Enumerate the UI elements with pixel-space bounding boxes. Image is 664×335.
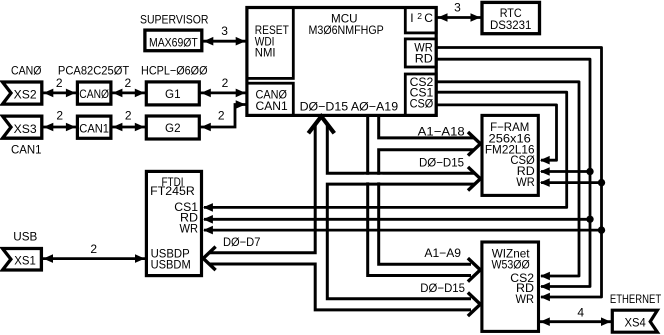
svg-text:MAX69ØT: MAX69ØT [149,35,198,49]
junction dot WR/F-RAM [598,179,605,186]
junction dot WR/FTDI [598,226,605,233]
svg-text:XS1: XS1 [14,253,36,267]
arrowhead into F-RAM CS0 [540,156,550,165]
svg-text:DØ−D15: DØ−D15 [419,155,464,169]
svg-text:C: C [424,11,433,25]
optocoupler G2 [146,116,199,139]
bus arrowhead into WIZnet D0-D15 [469,294,480,315]
bus crossing blank: F-RAM D0-D15 bus passes over address bus [364,175,383,183]
mcu sub-block CAN0 CAN1 [247,83,293,115]
bus data: FTDI D0-D7 top line joining vertical bus 1 left line [210,125,315,253]
wire MCU CS1 to FTDI CS1 [204,92,567,207]
arrowhead into WIZnet RD [540,282,550,291]
arrowhead into FTDI RD [203,215,213,224]
wire XS2 to CAN0 (2) [43,76,76,97]
wire WIZnet to XS4 (4) [539,305,612,326]
svg-text:M3Ø6NMFHGP: M3Ø6NMFHGP [309,23,384,37]
wire XS3 to CAN1 (2) [43,109,76,132]
transceiver CAN0 [77,82,111,104]
svg-text:CSØ: CSØ [410,96,434,110]
wire branch WR to F-RAM WR [541,181,602,184]
svg-text:CAN1: CAN1 [11,143,42,157]
bus arrowhead into F-RAM D0-D15 [469,168,480,189]
svg-text:2: 2 [417,11,422,21]
arrowhead into F-RAM RD [540,167,550,176]
transceiver CAN1 [77,116,111,138]
arrowhead into FTDI WR [203,226,213,235]
svg-text:XS4: XS4 [625,316,646,330]
mcu sub-block CS2 CS1 CS0 [405,74,436,115]
arrowhead into WIZnet WR [540,293,550,302]
ethernet controller WIZnet W5300 [482,242,539,331]
wire XS1 to FTDI USBDP/USBDM (2) [43,242,147,263]
wire I2C to RTC (3) [436,1,481,22]
svg-text:XS2: XS2 [14,88,37,102]
svg-text:3: 3 [221,24,228,38]
svg-text:USBDM: USBDM [151,257,191,271]
mcu sub-block I2C [405,8,436,33]
svg-text:I: I [410,11,413,25]
mcu sub-block WR RD [405,39,436,67]
svg-text:PCA82C25ØT: PCA82C25ØT [58,64,130,78]
bus address: A1-A18 bottom line, vertical bus 2 right line lower part, A1-A9 top line [379,150,474,265]
optocoupler G1 [146,82,199,105]
svg-text:4: 4 [577,305,584,319]
usb interface FTDI FT245R [146,171,201,275]
junction dot RD/F-RAM [586,168,593,175]
svg-text:2: 2 [90,242,97,256]
connector XS2 [3,82,42,104]
svg-text:DØ−D7: DØ−D7 [223,235,261,249]
wire MCU WR to WIZnet WR [436,48,601,298]
svg-text:RD: RD [415,52,433,66]
junction dot RD/FTDI [586,216,593,223]
svg-text:2: 2 [125,109,132,123]
svg-text:NMI: NMI [255,46,276,60]
bus data: FTDI D0-D7 bottom line, vertical bus 1 left line lower part, WIZnet D0-D15 bottom line [210,264,471,310]
wire G1 to MCU CAN0 (2) [199,76,247,97]
mcu sub-block RESET WDI NMI [247,8,293,79]
wire branch WR to FTDI WR [204,229,602,232]
svg-text:FT245R: FT245R [150,184,195,198]
svg-text:CANØ: CANØ [11,64,42,78]
wire MCU CS2 to WIZnet CS2 [436,82,579,276]
wire branch RD to FTDI RD [204,218,590,221]
wire MCU CS0 to F-RAM CS0 [436,105,556,160]
bus data: F-RAM D0-D15 top line joining vertical bus 1 right line [327,125,474,174]
svg-text:2: 2 [218,109,225,123]
svg-text:DØ−D15: DØ−D15 [420,281,465,295]
svg-text:DS3231: DS3231 [490,18,532,32]
svg-text:W53ØØ: W53ØØ [492,257,530,271]
svg-text:SUPERVISOR: SUPERVISOR [140,12,209,26]
wire branch RD to F-RAM RD [541,170,590,173]
wire G2 to MCU CAN1 (2) [199,100,247,131]
svg-text:XS3: XS3 [14,122,37,136]
bus arrowhead into WIZnet A1-A9 [469,259,480,280]
svg-text:2: 2 [56,76,63,90]
svg-text:2: 2 [222,76,229,90]
memory F-RAM FM22L16 [482,115,538,195]
svg-text:A1−A9: A1−A9 [424,246,461,260]
svg-text:CAN1: CAN1 [256,99,289,113]
svg-text:A1−A18: A1−A18 [418,125,465,139]
svg-text:G1: G1 [165,87,181,101]
supervisor MAX690T [145,30,202,51]
connector XS4 [612,310,657,332]
rtc DS3231 [482,2,540,33]
svg-text:2: 2 [124,76,131,90]
wire MAX690T to MCU RESET (3) [202,24,247,45]
bus data: F-RAM D0-D15 bottom line, vertical bus 1 right line lower part, WIZnet D0-D15 top line [327,184,474,299]
svg-text:CAN1: CAN1 [79,121,109,135]
arrowhead into FTDI CS1 [203,203,213,212]
bus big arrowhead into MCU D0-D15 A0-A19 [310,116,333,131]
svg-text:USB: USB [13,230,37,244]
mcu M306NMFHGP [247,8,436,116]
bus arrowhead into F-RAM A1-A18 [469,133,480,154]
bus address: vertical bus 2 left line and A1-A9 bottom line [368,117,471,276]
connector XS1 [3,249,42,271]
arrowhead into WIZnet CS2 [540,272,550,281]
bus address: A1-A18 top line joining vertical bus 2 right line [379,117,474,138]
wire CAN0 to G1 (2) [112,76,146,97]
svg-text:DØ−D15 AØ−A19: DØ−D15 AØ−A19 [300,100,399,114]
svg-text:2: 2 [56,109,63,123]
wire CAN1 to G2 (2) [112,109,146,132]
bus arrowhead into FTDI D0-D7 [203,248,214,269]
arrowhead into F-RAM WR [540,178,550,187]
svg-text:WR: WR [516,292,535,306]
svg-text:3: 3 [454,1,461,15]
connector XS3 [3,116,42,138]
svg-text:WR: WR [516,175,535,189]
svg-text:WR: WR [180,222,199,236]
svg-text:HCPL−Ø6ØØ: HCPL−Ø6ØØ [141,64,208,78]
svg-text:ETHERNET: ETHERNET [610,292,662,306]
wire MCU RD to WIZnet RD [436,59,590,286]
svg-text:G2: G2 [165,121,181,135]
svg-text:CANØ: CANØ [79,87,109,101]
